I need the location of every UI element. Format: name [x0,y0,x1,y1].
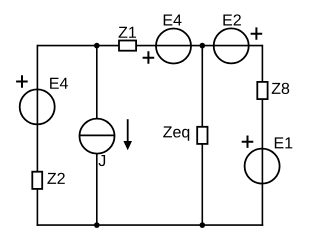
label Z2 [47,173,64,184]
voltage source E2 [214,28,249,63]
label E2 [223,14,240,25]
plus sign of E4 (top) [143,51,155,63]
impedance Zeq [197,127,207,144]
wire branch J [96,46,98,226]
wire top [37,45,262,47]
current direction arrow [127,119,129,142]
junction node bottom-right [200,222,206,228]
voltage source E4 (top) [156,29,191,64]
plus sign of E2 [251,27,263,39]
resistor Z1 [119,41,136,51]
impedance Z2 [32,172,42,189]
current source J diameter bar [80,134,115,136]
label E4left [50,78,68,89]
label J [99,155,106,166]
label E1 [275,137,292,148]
label Zeq [163,126,189,140]
wire left side [36,45,38,226]
voltage source E1 [245,149,280,184]
current source J circle [80,119,115,154]
junction node bottom-left [94,222,100,228]
junction node top-right [200,43,206,49]
label E4top [164,14,182,25]
impedance Z8 [257,82,267,99]
label Z8 [272,83,289,94]
wire branch Zeq [201,46,203,226]
wire right side [261,45,263,226]
plus sign of E1 [242,136,254,148]
voltage source E4 (left) [20,89,55,124]
wire bottom [37,224,264,226]
label Z1 [119,27,136,38]
junction node top-left [94,43,100,49]
plus sign of E4 (left) [16,75,28,87]
